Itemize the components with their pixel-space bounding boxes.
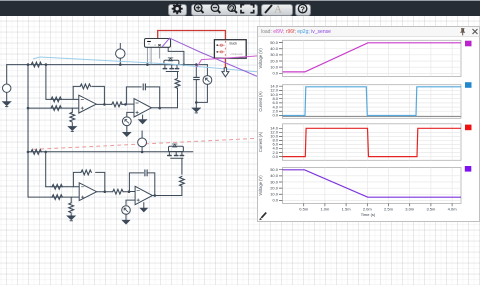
junction node J bbox=[195, 101, 198, 104]
wire lower rail bbox=[28, 151, 193, 153]
resistor R13 series bbox=[113, 189, 123, 194]
resistor R7 below mosfet bbox=[177, 72, 179, 108]
trace red plot3 bbox=[283, 128, 462, 156]
x labels bbox=[299, 207, 457, 218]
wire x=46 drop bbox=[45, 65, 47, 100]
trace purple plot4 bbox=[283, 170, 462, 197]
op-amp U5 bbox=[79, 183, 96, 201]
arrow under M1 bbox=[123, 133, 130, 137]
y labels plot3 bbox=[270, 126, 279, 159]
junction node N bbox=[141, 151, 144, 154]
resistor R3 bbox=[51, 106, 61, 111]
arrow under U6 bbox=[143, 203, 145, 208]
capacitor C3 bbox=[145, 170, 147, 176]
feedback wire U1 bbox=[73, 86, 104, 104]
voltage source V1 bbox=[6, 65, 8, 84]
feedback wire U5 bbox=[73, 172, 104, 191]
junction node B bbox=[45, 63, 48, 66]
op-amp U1 bbox=[79, 95, 96, 113]
junction node M bbox=[44, 151, 47, 154]
plot boxes bbox=[283, 40, 462, 203]
output wire U2 bbox=[151, 107, 177, 109]
resistor R12 to ground bbox=[70, 197, 72, 216]
pin icon bbox=[460, 29, 465, 36]
junction node D bbox=[146, 63, 149, 66]
wire rail noninverting op1b bbox=[28, 196, 79, 198]
resistor R9 bbox=[52, 184, 62, 189]
fit screen icon bbox=[241, 5, 254, 13]
meter M1 bbox=[122, 117, 131, 126]
resistor R1 input bbox=[31, 62, 41, 67]
probe leader magenta bbox=[197, 56, 258, 68]
toolbar bbox=[0, 0, 480, 16]
pen icon bbox=[259, 213, 266, 221]
junction node P bbox=[128, 190, 131, 193]
gear icon bbox=[172, 3, 183, 14]
legend swatch red bbox=[465, 125, 472, 131]
resistor R5 to ground bbox=[71, 108, 73, 126]
output wire U6 bbox=[153, 195, 182, 197]
resistor R14 below mosfet2 bbox=[181, 158, 183, 195]
junction node A bbox=[27, 63, 30, 66]
wire U6 noninv to probe bbox=[126, 200, 135, 205]
y labels plot2 bbox=[270, 84, 279, 118]
resistor R2 bbox=[51, 97, 61, 102]
wire block1 right pin bbox=[168, 47, 184, 64]
toolbar icons bbox=[0, 0, 480, 18]
ground under C2 bbox=[193, 108, 201, 112]
lower section bbox=[28, 131, 193, 224]
transistor Q1 mosfet bbox=[164, 60, 179, 64]
on-page connector arrow (red net) bbox=[222, 68, 229, 77]
junction node K bbox=[27, 107, 30, 110]
zoom out icon bbox=[211, 4, 220, 13]
meter M3 bbox=[122, 206, 131, 215]
svg-text:~Channels: ~Channels bbox=[230, 52, 244, 56]
y tick marks bbox=[279, 43, 452, 207]
dark zero line plot2 bbox=[283, 115, 462, 117]
block U3 comparator bbox=[145, 39, 171, 48]
wire cap riser b bbox=[129, 173, 143, 192]
resistor R8 bbox=[31, 150, 41, 155]
svg-text:Buck: Buck bbox=[230, 42, 238, 46]
wire rail noninverting op1 bbox=[28, 107, 79, 109]
red net wire bbox=[158, 31, 226, 69]
zoom in icon bbox=[194, 4, 203, 13]
wire meter branch bbox=[206, 65, 208, 76]
wire to U6 inverting bbox=[129, 191, 135, 193]
resistor R4 feedback bbox=[80, 84, 90, 89]
y labels plot4 bbox=[270, 167, 279, 203]
capacitor C1 bbox=[143, 84, 145, 90]
output wire U5 bbox=[97, 191, 130, 193]
wire left bus x=28 bbox=[27, 65, 29, 198]
current source I1 bbox=[119, 43, 121, 49]
probe leader red dashed bbox=[33, 138, 257, 149]
zoom reset icon bbox=[228, 4, 237, 13]
legend swatch purple bbox=[465, 166, 472, 172]
help icon bbox=[298, 4, 306, 12]
junction node H bbox=[124, 103, 127, 106]
trace magenta plot1 bbox=[283, 43, 462, 72]
resistor R10 bbox=[52, 195, 62, 200]
legend swatch cyan bbox=[465, 82, 472, 88]
junction node L bbox=[27, 151, 30, 154]
block U4 subcircuit bbox=[214, 40, 246, 59]
junction node C bbox=[119, 63, 122, 66]
capacitor C2 branch bbox=[195, 65, 197, 77]
trace cyan plot2 bbox=[283, 87, 462, 116]
grapher panel bbox=[257, 26, 480, 222]
junction node I bbox=[158, 107, 161, 110]
thin gray pin wires block1 bbox=[147, 47, 159, 64]
resistor R11 feedback bbox=[81, 170, 91, 175]
junction node E bbox=[183, 64, 186, 67]
y labels plot1 bbox=[270, 40, 279, 76]
arrow under U2 bbox=[142, 115, 144, 120]
gridlines bbox=[283, 40, 462, 203]
junction node Q bbox=[154, 194, 157, 197]
transistor Q2 mosfet bbox=[169, 146, 184, 151]
probe leader cyan bbox=[33, 57, 258, 72]
junction node O bbox=[104, 190, 107, 193]
line tool icon bbox=[265, 5, 272, 13]
wire main top rail bbox=[7, 64, 208, 66]
resistor R6 series bbox=[112, 102, 122, 107]
close icon bbox=[473, 29, 478, 34]
junction node F bbox=[195, 63, 198, 66]
output wire U1 bbox=[96, 103, 126, 105]
wire x=45.7 drop bbox=[45, 152, 47, 187]
legend swatch magenta bbox=[465, 41, 472, 47]
ground under R5 bbox=[69, 127, 77, 131]
wire U2 noninv to probe bbox=[127, 112, 134, 117]
ground under R12 bbox=[67, 216, 75, 220]
junction node G bbox=[103, 103, 106, 106]
y axis titles bbox=[258, 48, 263, 196]
meter M2 bbox=[203, 76, 212, 85]
current source I2 bbox=[141, 131, 143, 138]
ground for V1 bbox=[3, 102, 11, 106]
op-amp U6 bbox=[135, 186, 152, 204]
arrow under M3 bbox=[123, 220, 130, 224]
wire to U2 inverting bbox=[126, 103, 134, 105]
wire cap riser bbox=[126, 87, 141, 104]
op-amp U2 bbox=[134, 99, 151, 117]
probe leader purple bbox=[162, 38, 258, 76]
wire rail inverting op1 bbox=[46, 98, 79, 100]
wire rail inverting op1b bbox=[46, 186, 79, 188]
